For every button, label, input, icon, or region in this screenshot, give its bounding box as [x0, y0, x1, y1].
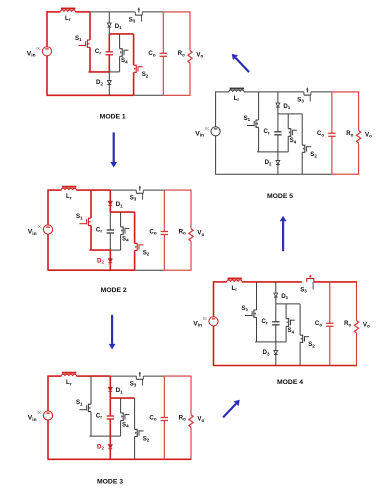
- wire left rail lower (mode 1): [46, 56, 48, 96]
- arrow mode 5 to mode 1: [232, 54, 249, 72]
- wire left rail upper (mode 3): [47, 376, 49, 412]
- wire Ro top lead / right edge upper (mode 2): [190, 190, 192, 229]
- transistor S4 (mode 1): [120, 49, 129, 57]
- wire top rail left (mode 4): [213, 281, 227, 283]
- wire Cr top lead (mode 4): [275, 304, 277, 322]
- wire top rail after Lr (mode 5): [244, 91, 259, 93]
- wire Co top lead (mode 1): [162, 12, 164, 53]
- diode D2 (mode 5): [276, 161, 280, 165]
- transistor S3 (mode 4): [307, 275, 314, 290]
- wire top rail output section (mode 1): [163, 11, 190, 13]
- wire bottom rail left (mode 4): [213, 365, 300, 367]
- wire Ro top lead / right edge upper (mode 5): [358, 91, 360, 130]
- wire top rail node A to D1 column (mode 4): [257, 281, 276, 283]
- wire inner line S1 to Cr (mode 3): [90, 435, 111, 437]
- wire S2 source to bottom rail (mode 3): [134, 437, 136, 460]
- wire Ro bottom lead / right edge lower (mode 5): [358, 143, 360, 174]
- wire top rail D1 column to S3 (mode 1): [109, 11, 135, 13]
- wire left rail upper (mode 4): [213, 281, 215, 317]
- wire top rail after Lr (mode 3): [76, 375, 91, 377]
- arrow mode 3 to mode 4: [223, 400, 240, 418]
- transistor S2 (mode 4): [300, 335, 309, 342]
- svg-text:DC: DC: [205, 127, 209, 131]
- wire inner line Cr to S4 (mode 2): [110, 249, 120, 251]
- capacitor Cr (mode 2): [107, 230, 114, 233]
- wire D1 cathode to mid node (mode 3): [109, 391, 111, 398]
- wire Co bottom lead (mode 3): [163, 421, 165, 460]
- diode D2 (mode 1): [107, 81, 111, 85]
- capacitor Co (mode 1): [160, 53, 167, 56]
- transistor S3 (mode 3): [136, 372, 143, 386]
- wire top rail after Lr (mode 2): [76, 189, 91, 191]
- wire top rail D1 column to S3 (mode 5): [278, 91, 304, 93]
- wire S2 source to bottom rail (mode 2): [134, 251, 136, 271]
- wire S2 drain from mid line (mode 3): [134, 398, 136, 429]
- wire top rail S3 to Co branch (mode 5): [311, 91, 332, 93]
- wire inner line Cr to S4 (mode 1): [109, 71, 119, 73]
- wire S1 source to inner line (mode 2): [90, 226, 92, 251]
- wire left rail upper (mode 2): [47, 190, 49, 226]
- inductor Lr (mode 4): [227, 279, 242, 282]
- wire Ro top lead / right edge upper (mode 3): [190, 376, 192, 415]
- wire top rail node A to D1 column (mode 1): [90, 11, 109, 13]
- wire D1 cathode to mid node (mode 5): [277, 107, 279, 114]
- diode D2 (mode 2): [108, 259, 112, 263]
- transistor S1 (mode 5): [247, 120, 259, 127]
- wire inner line S1 to Cr (mode 2): [90, 249, 111, 251]
- wire D2 cathode to bottom rail (mode 3): [109, 449, 111, 460]
- wire left rail lower (mode 2): [47, 234, 49, 270]
- wire bottom rail output section (mode 2): [164, 269, 191, 271]
- wire Co bottom lead (mode 2): [163, 235, 165, 271]
- transistor S3 (mode 2): [136, 186, 143, 200]
- resistor Ro (mode 5): [357, 131, 361, 144]
- wire S1 source to inner line (mode 4): [256, 317, 258, 342]
- wire top rail S3 to Co branch (mode 4): [314, 281, 330, 283]
- wire S4 drain (mode 4): [285, 304, 287, 319]
- arrow mode 2 to mode 3: [109, 315, 116, 350]
- transistor S2 (mode 3): [135, 429, 144, 436]
- wire S2 drain from mid line (mode 1): [133, 34, 135, 65]
- wire S1 source to inner line (mode 1): [89, 47, 91, 72]
- wire D1 cathode to mid node (mode 4): [275, 297, 277, 304]
- transistor S4 (mode 2): [121, 227, 130, 235]
- wire bottom rail left (mode 3): [48, 458, 135, 460]
- wire bottom rail output section (mode 3): [164, 458, 191, 460]
- wire Cr bottom lead (mode 3): [109, 419, 111, 436]
- wire Cr top lead (mode 5): [277, 114, 279, 132]
- wire inner line Cr to S4 (mode 4): [276, 341, 286, 343]
- transistor S2 (mode 1): [134, 65, 143, 72]
- svg-text:DC: DC: [38, 225, 42, 229]
- wire D2 anode from inner line (mode 5): [277, 152, 279, 161]
- transistor S4 (mode 4): [286, 319, 295, 327]
- wire D2 anode from inner line (mode 1): [108, 72, 110, 81]
- wire left rail lower (mode 5): [215, 136, 217, 175]
- wire bottom rail middle (mode 1): [134, 94, 164, 96]
- wire Cr top lead (mode 2): [109, 212, 111, 230]
- wire D2 anode from inner line (mode 4): [275, 342, 277, 351]
- transistor S1 (mode 4): [245, 310, 257, 317]
- wire Cr top lead (mode 1): [108, 34, 110, 52]
- wire Cr bottom lead (mode 1): [108, 55, 110, 72]
- arrow mode 4 to mode 5: [280, 216, 287, 252]
- wire top rail left (mode 2): [48, 189, 62, 191]
- wire top rail S3 to Co branch (mode 2): [143, 189, 164, 191]
- wire D1 cathode to mid node (mode 1): [108, 27, 110, 34]
- capacitor Cr (mode 1): [106, 52, 113, 55]
- wire inner line S1 to Cr (mode 5): [257, 151, 278, 153]
- transistor S1 (mode 3): [80, 404, 92, 411]
- wire left rail lower (mode 4): [213, 326, 215, 366]
- transistor S4 (mode 3): [121, 413, 130, 421]
- voltage source Vin (mode 2): [38, 225, 53, 234]
- svg-text:MODE 1: MODE 1: [100, 114, 126, 121]
- wire S2 drain from mid line (mode 2): [134, 212, 136, 243]
- wire top rail output section (mode 2): [164, 189, 191, 191]
- capacitor Cr (mode 4): [272, 322, 279, 325]
- wire top rail left (mode 1): [47, 11, 61, 13]
- wire S4 source to inner line (mode 2): [120, 235, 122, 251]
- wire inner line S1 to Cr (mode 4): [255, 341, 276, 343]
- wire top rail output section (mode 3): [164, 375, 191, 377]
- wire bottom rail left (mode 2): [48, 269, 135, 271]
- transistor S1 (mode 1): [79, 40, 91, 47]
- wire Ro top lead / right edge upper (mode 1): [189, 11, 191, 50]
- wire Co bottom lead (mode 5): [331, 136, 333, 174]
- wire D1 anode (mode 3): [109, 376, 111, 387]
- svg-text:DC: DC: [37, 47, 41, 51]
- wire bottom rail left (mode 1): [47, 94, 134, 96]
- wire S4 drain (mode 5): [287, 114, 289, 129]
- wire S2 drain from mid line (mode 4): [299, 304, 301, 335]
- diode D1 (mode 1): [107, 23, 111, 27]
- wire top rail left (mode 5): [215, 91, 229, 93]
- transistor S2 (mode 5): [302, 145, 311, 152]
- wire S2 drain from mid line (mode 5): [301, 114, 303, 145]
- svg-text:MODE 3: MODE 3: [97, 478, 123, 485]
- wire Ro bottom lead / right edge lower (mode 4): [356, 333, 358, 366]
- wire mid line D1 to S2 (mode 4): [276, 303, 300, 305]
- wire S4 drain (mode 2): [120, 212, 122, 227]
- voltage source Vin (mode 4): [203, 317, 218, 326]
- wire top rail D1 column to S3 (mode 2): [110, 189, 136, 191]
- wire D2 cathode to bottom rail (mode 2): [109, 263, 111, 271]
- svg-text:DC: DC: [203, 317, 207, 321]
- wire mid line D1 to S2 (mode 1): [109, 33, 133, 35]
- wire Ro bottom lead / right edge lower (mode 2): [190, 241, 192, 270]
- wire left rail upper (mode 1): [46, 11, 48, 47]
- wire D1 cathode to mid node (mode 2): [109, 205, 111, 212]
- wire bottom rail output section (mode 5): [332, 173, 359, 175]
- wire left rail lower (mode 3): [47, 420, 49, 459]
- inductor Lr (mode 1): [60, 9, 75, 12]
- wire D1 anode (mode 1): [108, 12, 110, 23]
- wire Co top lead (mode 3): [163, 376, 165, 417]
- wire D1 anode (mode 5): [277, 92, 279, 103]
- wire S4 source to inner line (mode 5): [287, 136, 289, 152]
- wire bottom rail middle (mode 5): [302, 173, 332, 175]
- wire bottom rail middle (mode 4): [300, 365, 330, 367]
- diode D1 (mode 2): [108, 201, 112, 205]
- wire S4 source to inner line (mode 1): [119, 56, 121, 72]
- wire S4 source to inner line (mode 3): [120, 421, 122, 437]
- svg-text:MODE 2: MODE 2: [101, 287, 127, 294]
- wire Cr bottom lead (mode 2): [109, 233, 111, 250]
- arrow mode 1 to mode 2: [110, 132, 117, 167]
- wire left rail upper (mode 5): [215, 91, 217, 127]
- wire S1 source to inner line (mode 3): [90, 412, 92, 437]
- wire S1 source to inner line (mode 5): [258, 127, 260, 152]
- transistor S4 (mode 5): [288, 129, 297, 137]
- wire top rail left (mode 3): [48, 375, 62, 377]
- wire Co top lead (mode 5): [331, 92, 333, 133]
- transistor S3 (mode 1): [135, 8, 142, 22]
- wire S2 source to bottom rail (mode 1): [133, 72, 135, 95]
- svg-text:MODE 5: MODE 5: [267, 193, 293, 200]
- wire D2 anode from inner line (mode 3): [109, 436, 111, 445]
- voltage source Vin (mode 1): [37, 47, 52, 56]
- wire top rail S3 to Co branch (mode 1): [142, 11, 163, 13]
- wire bottom rail middle (mode 2): [135, 269, 165, 271]
- wire bottom rail output section (mode 1): [163, 94, 190, 96]
- wire top rail output section (mode 5): [332, 91, 359, 93]
- wire Cr bottom lead (mode 5): [277, 135, 279, 152]
- diode D1 (mode 5): [276, 103, 280, 107]
- wire D2 cathode to bottom rail (mode 4): [275, 355, 277, 366]
- capacitor Co (mode 5): [328, 133, 335, 136]
- wire D2 anode from inner line (mode 2): [109, 250, 111, 259]
- wire Ro bottom lead / right edge lower (mode 1): [189, 63, 191, 95]
- wire Co top lead (mode 2): [163, 190, 165, 231]
- resistor Ro (mode 3): [189, 415, 193, 428]
- svg-text:DC: DC: [38, 411, 42, 415]
- wire S1 drain from node A (mode 4): [256, 282, 258, 310]
- wire top rail output section (mode 4): [330, 281, 357, 283]
- transistor S3 (mode 5): [304, 88, 311, 102]
- diode D1 (mode 4): [274, 293, 278, 297]
- capacitor Co (mode 2): [161, 232, 168, 235]
- resistor Ro (mode 2): [189, 229, 193, 242]
- wire mid line D1 to S2 (mode 5): [278, 113, 302, 115]
- transistor S1 (mode 2): [80, 218, 92, 225]
- capacitor Co (mode 3): [161, 418, 168, 421]
- wire mid line D1 to S2 (mode 3): [110, 397, 134, 399]
- wire inner line Cr to S4 (mode 3): [110, 435, 120, 437]
- wire top rail node A to D1 column (mode 2): [91, 189, 110, 191]
- wire S2 source to bottom rail (mode 5): [301, 152, 303, 174]
- wire S1 drain from node A (mode 1): [89, 12, 91, 40]
- wire Co bottom lead (mode 4): [329, 326, 331, 365]
- wire bottom rail middle (mode 3): [135, 458, 165, 460]
- wire top rail node A to D1 column (mode 5): [259, 91, 278, 93]
- wire S4 drain (mode 1): [119, 34, 121, 49]
- wire Cr top lead (mode 3): [109, 398, 111, 416]
- wire S4 source to inner line (mode 4): [285, 326, 287, 342]
- wire D2 cathode to bottom rail (mode 5): [277, 165, 279, 175]
- wire S4 drain (mode 3): [120, 398, 122, 413]
- wire inner line Cr to S4 (mode 5): [278, 151, 288, 153]
- wire Ro top lead / right edge upper (mode 4): [356, 281, 358, 320]
- voltage source Vin (mode 3): [38, 411, 53, 420]
- resistor Ro (mode 4): [354, 321, 358, 334]
- svg-text:MODE 4: MODE 4: [277, 379, 303, 386]
- wire mid line D1 to S2 (mode 2): [110, 211, 134, 213]
- wire top rail D1 column to S3 (mode 4): [276, 281, 302, 283]
- inductor Lr (mode 2): [61, 187, 76, 190]
- capacitor Co (mode 4): [326, 323, 333, 326]
- wire S2 source to bottom rail (mode 4): [299, 342, 301, 365]
- wire inner line S1 to Cr (mode 1): [89, 71, 110, 73]
- wire S1 drain from node A (mode 5): [258, 92, 260, 120]
- wire top rail node A to D1 column (mode 3): [91, 375, 110, 377]
- capacitor Cr (mode 3): [107, 416, 114, 419]
- voltage source Vin (mode 5): [205, 127, 220, 136]
- inductor Lr (mode 5): [229, 89, 244, 92]
- wire Ro bottom lead / right edge lower (mode 3): [190, 427, 192, 459]
- wire Co top lead (mode 4): [329, 282, 331, 323]
- diode D1 (mode 3): [108, 387, 112, 391]
- wire top rail D1 column to S3 (mode 3): [110, 375, 136, 377]
- wire top rail after Lr (mode 1): [75, 11, 90, 13]
- wire D1 anode (mode 2): [109, 190, 111, 201]
- wire Co bottom lead (mode 1): [162, 56, 164, 95]
- wire S1 drain from node A (mode 2): [90, 190, 92, 218]
- diode D2 (mode 3): [108, 445, 112, 449]
- wire D1 anode (mode 4): [275, 282, 277, 293]
- wire top rail S3 to Co branch (mode 3): [143, 375, 164, 377]
- transistor S2 (mode 2): [135, 243, 144, 250]
- wire Cr bottom lead (mode 4): [275, 325, 277, 342]
- inductor Lr (mode 3): [61, 373, 76, 376]
- wire bottom rail left (mode 5): [215, 173, 302, 175]
- capacitor Cr (mode 5): [274, 132, 281, 135]
- diode D3 (mode 4): [274, 351, 278, 355]
- wire S1 drain from node A (mode 3): [90, 376, 92, 404]
- wire bottom rail output section (mode 4): [330, 365, 357, 367]
- wire D2 cathode to bottom rail (mode 1): [108, 85, 110, 96]
- resistor Ro (mode 1): [188, 51, 192, 64]
- wire top rail after Lr (mode 4): [242, 281, 257, 283]
